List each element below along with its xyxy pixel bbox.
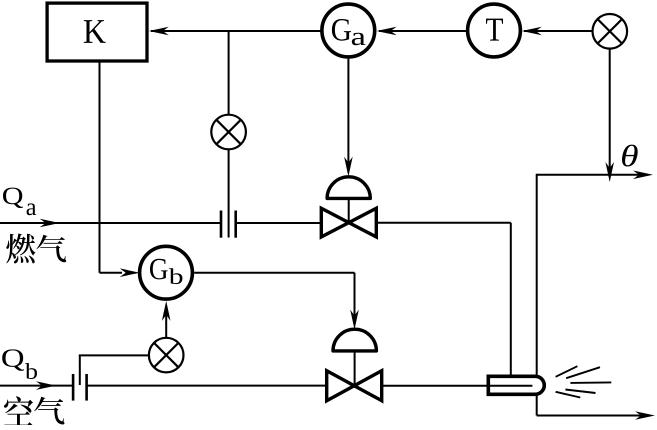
furnace bottom outlet line (y=415.5) xyxy=(537,415,648,417)
wire from K-Ga line down to fuel flow sensor (x=228.6) xyxy=(228,31,230,115)
orifice plate on fuel pipe (two bars) xyxy=(220,211,223,238)
label Gb xyxy=(150,259,168,280)
arrowhead onto upper valve dome xyxy=(344,157,353,177)
flame line 2 (upper long) xyxy=(566,367,600,378)
arrowhead into T xyxy=(522,27,542,36)
wire down to lower valve actuator xyxy=(354,273,356,322)
wire T to Ga (y=31) xyxy=(379,30,468,32)
arrowhead into Ga xyxy=(377,27,397,36)
label Qb xyxy=(2,349,24,370)
flame line 5 (lower short) xyxy=(556,392,581,398)
label kong (air1) xyxy=(4,396,33,425)
label qi (air2) xyxy=(34,397,64,425)
label K xyxy=(84,20,106,43)
upper control valve actuator dome xyxy=(327,177,370,199)
controller box K xyxy=(47,3,147,61)
furnace outlet line top (y=174.8) xyxy=(537,174,646,176)
wire Ga down to upper valve actuator xyxy=(347,59,349,169)
furnace right wall line (x=536.7) xyxy=(536,174,538,416)
ratio station Ga circle xyxy=(322,4,375,57)
fuel pipe orifice to upper valve xyxy=(236,222,324,224)
lower valve stem xyxy=(354,351,356,386)
fuel pipe Qa left segment (y=223) xyxy=(0,222,221,224)
label qi (gas) xyxy=(36,235,66,263)
arrowhead theta down onto outlet line xyxy=(605,162,614,182)
upper control valve body xyxy=(321,208,349,237)
flame line 1 (upper short) xyxy=(556,366,578,377)
wire fuel flow sensor down to orifice xyxy=(228,149,230,237)
label T xyxy=(486,19,503,41)
arrowhead furnace outlet top right xyxy=(633,171,653,180)
wire temperature sensor down to theta arrow (x=609.7) xyxy=(609,49,611,168)
air pipe orifice to lower valve xyxy=(87,385,329,387)
air flow transmitter crossed circle xyxy=(149,338,184,373)
lower control valve actuator dome xyxy=(333,329,376,351)
wire air flow sensor up to Gb xyxy=(165,308,167,338)
label ran (fuel) xyxy=(6,233,35,263)
flame line 3 (middle) xyxy=(570,381,611,384)
temperature transmitter T circle xyxy=(468,4,521,57)
wire elbow toward Gb xyxy=(100,272,123,274)
arrowhead into K xyxy=(149,27,169,36)
wire temperature sensor to T (y=31) xyxy=(524,30,593,32)
air sensing line right to air flow sensor xyxy=(79,354,149,356)
fuel pipe downcomer to burner (x=510.8) xyxy=(510,223,512,377)
arrowhead onto lower valve dome xyxy=(350,310,359,330)
arrowhead into Gb left xyxy=(120,268,140,277)
wire from K bottom down across fuel pipe (x=99.5) xyxy=(99,63,101,273)
temperature sensor crossed circle top right xyxy=(593,14,628,49)
fuel pipe upper valve to downcomer xyxy=(374,222,511,224)
label Qa xyxy=(3,188,23,208)
arrowhead into Gb bottom xyxy=(162,301,171,321)
arrowhead bottom outlet xyxy=(635,411,655,420)
burner (bullet shape) xyxy=(488,376,544,394)
wire Ga to K (control signal, y=31) xyxy=(151,30,321,32)
arrowhead on air pipe xyxy=(36,381,56,390)
air orifice sensing line up (x=79.8) xyxy=(79,355,81,385)
orifice plate on air pipe (two bars) xyxy=(72,374,75,401)
lower control valve body xyxy=(327,371,355,401)
arrowhead on fuel pipe xyxy=(40,219,60,228)
wire Gb right toward lower valve xyxy=(194,272,354,274)
fuel flow transmitter crossed circle xyxy=(211,115,246,150)
air pipe into burner xyxy=(383,385,532,387)
label Ga xyxy=(332,19,351,41)
ratio station Gb circle xyxy=(140,246,193,299)
air pipe Qb left segment (y=385.6) xyxy=(0,385,73,387)
flame line 4 (lower long) xyxy=(565,390,595,394)
upper valve stem xyxy=(348,198,350,222)
label theta xyxy=(622,145,638,167)
